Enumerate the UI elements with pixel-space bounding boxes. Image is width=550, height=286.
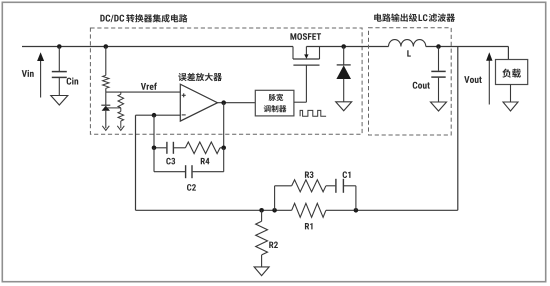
- node: switch node junction to diode: [341, 44, 346, 49]
- resistor R3: [292, 180, 336, 192]
- label R2: [269, 242, 278, 248]
- wire: op-amp output to PWM: [218, 102, 256, 104]
- wire: load to ground: [510, 85, 512, 103]
- label Cin: [67, 77, 79, 84]
- node: C3 branch left: [152, 146, 157, 151]
- ground below Cout: [431, 102, 447, 111]
- node: op-amp output junction: [221, 100, 226, 105]
- label: output LC filter block title: [374, 13, 455, 21]
- wire: PWM output to MOSFET gate: [294, 65, 307, 102]
- ground below divider resistor: [117, 126, 124, 131]
- label R4: [201, 158, 210, 164]
- wire: feedback to op-amp - input: [136, 114, 181, 116]
- resistor: divider top resistor: [103, 47, 109, 93]
- resistor R4: [185, 142, 223, 154]
- op-amp U1 error amplifier: [180, 84, 217, 121]
- node: feedback R2 junction: [259, 208, 264, 213]
- node: R1/C1 branch right junction: [354, 208, 359, 213]
- gate drive square wave: [300, 110, 326, 116]
- capacitor Cin: [52, 47, 67, 96]
- node: - input feedback junction: [152, 113, 157, 118]
- wire: - input junction down to compensation network: [153, 115, 155, 148]
- label: DC/DC converter IC block title: [100, 14, 187, 22]
- PWM modulator box: [255, 90, 294, 116]
- label Vin: [22, 70, 34, 77]
- freewheeling diode D1: [336, 47, 351, 102]
- ground below Cin: [51, 96, 68, 106]
- node: input rail junction to Cin: [57, 44, 62, 49]
- wire: op-amp output down to compensation network: [223, 103, 225, 148]
- ground below load: [503, 102, 518, 111]
- transistor Q1 MOSFET switch: [293, 47, 320, 66]
- wire: bottom feedback line: [136, 209, 458, 211]
- label C2: [187, 184, 196, 191]
- resistor R2: [256, 210, 268, 267]
- load box: [496, 60, 528, 85]
- label C3: [166, 158, 175, 165]
- node: C3 branch right: [221, 146, 226, 151]
- wire: output feedback drop: [457, 47, 459, 211]
- ground below R2: [254, 267, 269, 276]
- capacitor Cout: [431, 47, 445, 103]
- dashed box: output LC filter: [369, 28, 452, 135]
- label: load: [502, 69, 521, 78]
- resistor R1: [292, 203, 326, 217]
- Vin source arrow: [37, 52, 44, 97]
- capacitor C1: [336, 179, 344, 193]
- label MOSFET: [290, 33, 321, 40]
- node: R1/R3 branch left junction: [272, 208, 277, 213]
- wire: output rail drop to load: [507, 47, 509, 60]
- Vout arrow: [486, 52, 492, 104]
- label C1: [343, 171, 351, 178]
- ground below zener: [102, 126, 109, 131]
- label Vout: [464, 76, 481, 83]
- wire: top rail left segment (Vin to MOSFET source): [22, 46, 293, 48]
- wire: Vref node to op-amp + input: [106, 91, 181, 93]
- dashed box: DC/DC converter IC: [90, 28, 362, 134]
- label L: [407, 50, 411, 56]
- label: pulse width modulator: [264, 94, 287, 113]
- wire: feedback riser to - input: [135, 115, 137, 210]
- label: error amplifier: [178, 73, 222, 81]
- wire: inductor to output: [426, 46, 509, 48]
- label Vref: [141, 83, 157, 90]
- wire: top rail MOSFET drain to inductor: [306, 46, 388, 48]
- label R3: [305, 171, 314, 178]
- wire: R3/C1 branch risers: [275, 186, 356, 211]
- ground below diode: [336, 102, 352, 111]
- label Cout: [413, 82, 430, 89]
- node: output junction to Cout: [436, 44, 441, 49]
- node: input rail junction to reference divider: [104, 44, 109, 49]
- zener reference diode: [101, 92, 110, 128]
- capacitor C3: [154, 142, 185, 154]
- inductor L: [389, 40, 426, 47]
- label R1: [305, 223, 313, 229]
- wire: zener tap to divider: [106, 107, 121, 109]
- resistor: divider lower resistor (tapped): [118, 92, 124, 128]
- capacitor C2: [154, 148, 224, 178]
